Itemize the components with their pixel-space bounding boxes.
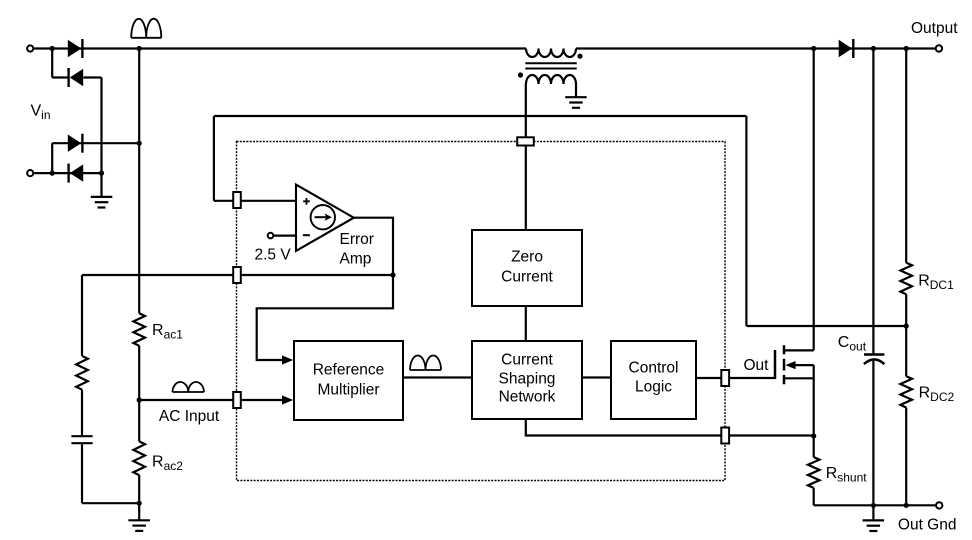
svg-text:Rac2: Rac2 [152, 453, 183, 473]
svg-text:RDC2: RDC2 [919, 384, 955, 404]
svg-text:Out Gnd: Out Gnd [898, 517, 957, 534]
svg-text:AC Input: AC Input [159, 408, 220, 425]
svg-text:RDC1: RDC1 [918, 272, 954, 292]
svg-text:Amp: Amp [340, 250, 372, 267]
svg-text:Control: Control [629, 359, 679, 376]
svg-text:Out: Out [744, 357, 770, 374]
svg-text:Output: Output [911, 20, 958, 37]
svg-text:Zero: Zero [511, 248, 543, 265]
svg-text:Current: Current [501, 268, 553, 285]
svg-text:Rshunt: Rshunt [826, 465, 868, 485]
svg-text:Error: Error [340, 231, 374, 248]
svg-text:2.5 V: 2.5 V [255, 246, 292, 263]
svg-text:Current: Current [501, 351, 553, 368]
svg-text:Network: Network [499, 388, 556, 405]
svg-text:Cout: Cout [838, 334, 867, 354]
svg-text:Rac1: Rac1 [152, 322, 183, 342]
svg-text:Logic: Logic [635, 378, 672, 395]
svg-text:Multiplier: Multiplier [317, 382, 379, 399]
svg-text:Vin: Vin [31, 103, 51, 123]
svg-text:Shaping: Shaping [499, 371, 556, 388]
svg-text:Reference: Reference [313, 362, 385, 379]
